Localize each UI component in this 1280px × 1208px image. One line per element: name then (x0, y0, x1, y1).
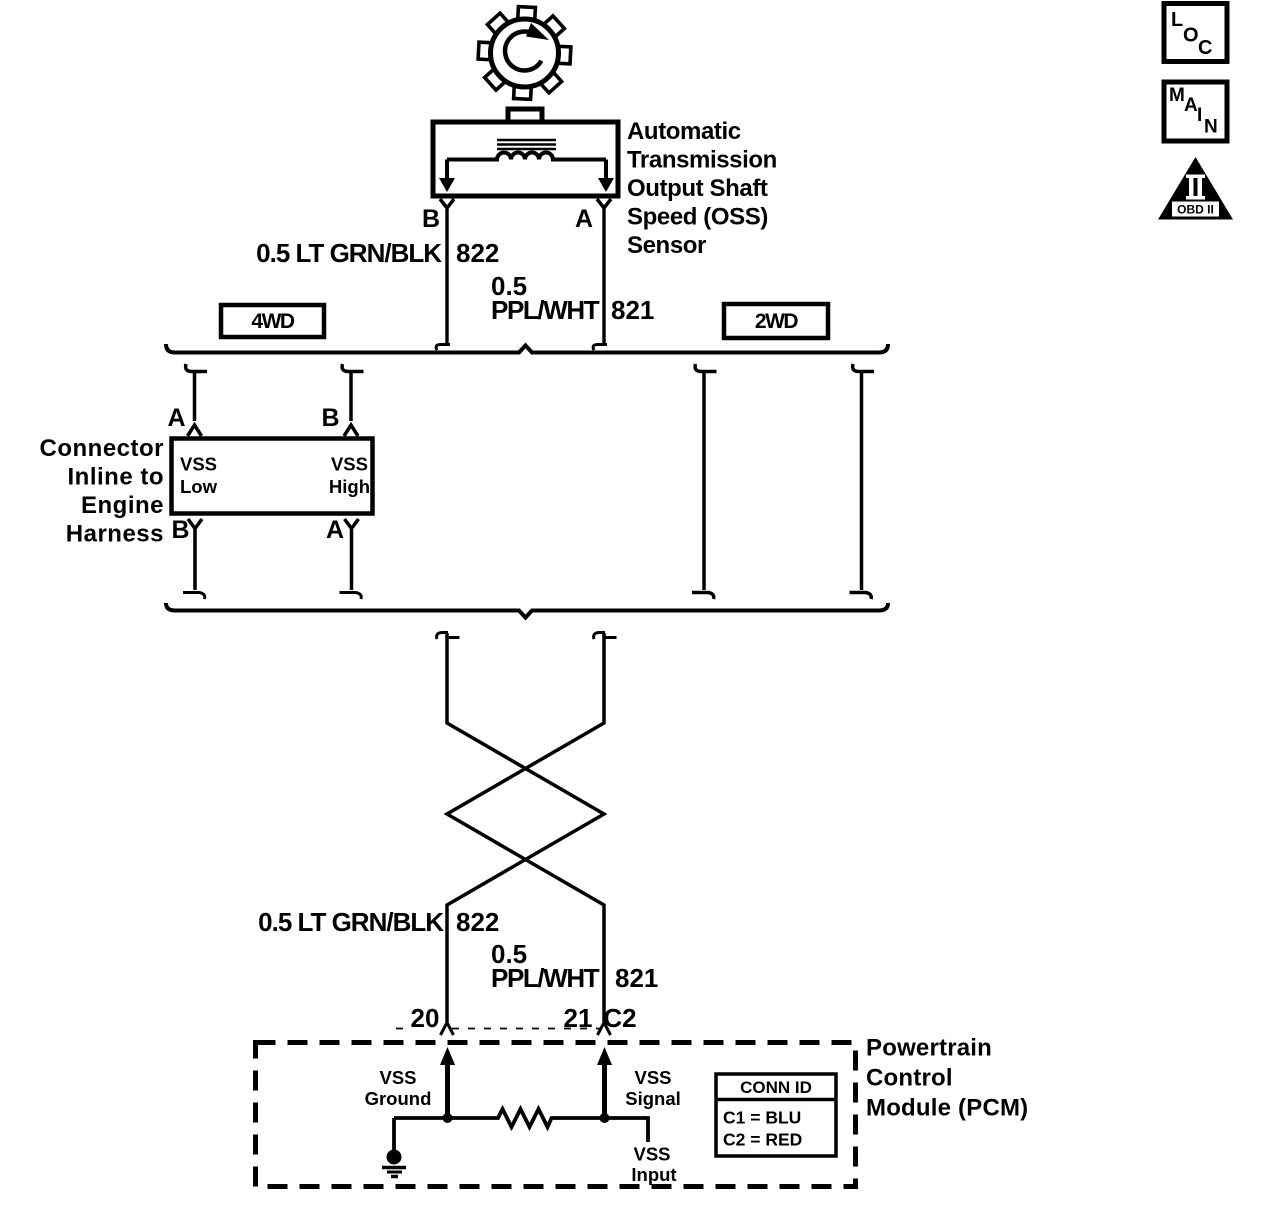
svg-text:VSS: VSS (331, 454, 368, 475)
inline connector wire 3 (692, 364, 717, 599)
pin fork 20 (441, 1023, 454, 1036)
svg-text:C2 = RED: C2 = RED (723, 1130, 802, 1150)
svg-text:VSS: VSS (180, 454, 217, 475)
svg-text:821: 821 (611, 295, 654, 325)
fork below box B (188, 519, 202, 529)
terminal fork A at sensor (597, 199, 611, 208)
harness brace bottom (166, 603, 888, 618)
svg-text:B: B (422, 205, 440, 233)
svg-text:OBD II: OBD II (1177, 203, 1214, 217)
svg-text:0.5 LT GRN/BLK: 0.5 LT GRN/BLK (258, 907, 444, 937)
junction dot left (443, 1113, 453, 1123)
svg-text:High: High (329, 476, 370, 497)
svg-text:VSS: VSS (379, 1067, 416, 1088)
internal wire with resistor (394, 1109, 648, 1142)
svg-text:0.5 LT GRN/BLK: 0.5 LT GRN/BLK (256, 238, 442, 268)
wire 822 upper segment (445, 208, 448, 346)
VSS Ground arrow (445, 1062, 450, 1118)
inline connector wire 2 (B) (342, 364, 363, 436)
wire from A fork down (350, 529, 354, 591)
sensor coil winding (447, 153, 606, 160)
svg-text:Module (PCM): Module (PCM) (866, 1095, 1028, 1122)
svg-text:O: O (1183, 25, 1199, 47)
svg-text:2WD: 2WD (755, 310, 799, 333)
wire 822 twisted segment (447, 633, 604, 1022)
terminal fork B at sensor (440, 199, 454, 208)
rotation arrow inside gear (505, 23, 549, 71)
ground branch wire (392, 1118, 396, 1150)
svg-text:VSS: VSS (634, 1067, 671, 1088)
svg-text:822: 822 (456, 907, 499, 937)
ground symbol (387, 1150, 402, 1165)
MAIN navigation box (1164, 82, 1227, 141)
OBD II triangle icon (1158, 157, 1233, 220)
svg-text:A: A (575, 205, 593, 233)
svg-text:M: M (1169, 85, 1185, 106)
B wire bottom bar (183, 593, 205, 600)
svg-text:B: B (321, 404, 339, 432)
svg-text:PPL/WHT: PPL/WHT (491, 295, 600, 325)
inline connector wire 1 (A) (186, 364, 207, 436)
svg-text:C1 = BLU: C1 = BLU (723, 1108, 801, 1128)
PCM connector dashed line (396, 1028, 600, 1030)
sensor core lines (497, 140, 556, 149)
PCM label text (866, 1035, 1028, 1122)
svg-text:Input: Input (631, 1164, 676, 1185)
svg-text:Powertrain: Powertrain (866, 1035, 992, 1062)
svg-text:L: L (1171, 9, 1183, 31)
OSS sensor box (433, 122, 618, 196)
4WD label box (221, 305, 324, 337)
svg-text:Ground: Ground (365, 1088, 432, 1109)
wire 821 twisted segment (447, 633, 604, 1022)
twisted pair top hook left (437, 633, 460, 640)
svg-text:Sensor: Sensor (627, 232, 706, 259)
PCM dashed box (256, 1043, 856, 1187)
svg-text:Engine: Engine (81, 492, 164, 519)
svg-text:Output Shaft: Output Shaft (627, 175, 768, 202)
svg-text:Automatic: Automatic (627, 118, 741, 145)
svg-text:C2: C2 (603, 1003, 636, 1033)
svg-text:I: I (1197, 105, 1202, 126)
VSS Low / VSS High box (172, 439, 373, 514)
svg-text:CONN ID: CONN ID (740, 1078, 812, 1097)
sensor lead right with arrow (604, 160, 608, 182)
2WD label box (724, 304, 828, 338)
svg-text:B: B (171, 516, 189, 544)
inline connector wire 4 (850, 364, 875, 599)
wire 822 end hook (436, 345, 450, 351)
svg-text:822: 822 (456, 238, 499, 268)
svg-text:Harness: Harness (66, 521, 164, 548)
connector callout text (40, 435, 165, 548)
svg-text:A: A (326, 516, 344, 544)
CONN ID table (716, 1074, 836, 1156)
sensor lead left with arrow (445, 160, 449, 182)
harness brace top (166, 344, 888, 353)
svg-text:821: 821 (615, 963, 658, 993)
wire 821 end hook (593, 345, 607, 351)
LOC navigation box (1164, 4, 1227, 62)
svg-text:4WD: 4WD (251, 310, 295, 333)
svg-text:VSS: VSS (633, 1144, 670, 1165)
fork below box A (345, 519, 359, 529)
svg-text:Inline to: Inline to (68, 464, 165, 491)
svg-text:Control: Control (866, 1065, 953, 1092)
svg-text:Low: Low (180, 476, 218, 497)
svg-text:C: C (1198, 37, 1212, 59)
pin fork 21 (598, 1023, 611, 1036)
reluctor gear wheel icon (478, 7, 571, 100)
svg-text:Connector: Connector (40, 435, 165, 462)
svg-text:N: N (1204, 117, 1218, 138)
svg-text:20: 20 (411, 1003, 440, 1033)
OSS sensor housing tab (508, 109, 542, 124)
svg-text:A: A (167, 404, 185, 432)
sensor label text (627, 118, 777, 259)
svg-text:A: A (1184, 95, 1198, 116)
wire 821 upper segment (602, 208, 605, 346)
VSS Signal arrow (602, 1062, 607, 1118)
wire from B fork down (193, 529, 197, 591)
svg-text:Speed (OSS): Speed (OSS) (627, 204, 768, 231)
twisted pair top hook right (594, 633, 617, 640)
A wire bottom bar (340, 593, 362, 600)
junction dot right (600, 1113, 610, 1123)
svg-text:PPL/WHT: PPL/WHT (491, 963, 600, 993)
svg-text:Transmission: Transmission (627, 147, 777, 174)
svg-text:Signal: Signal (625, 1088, 681, 1109)
